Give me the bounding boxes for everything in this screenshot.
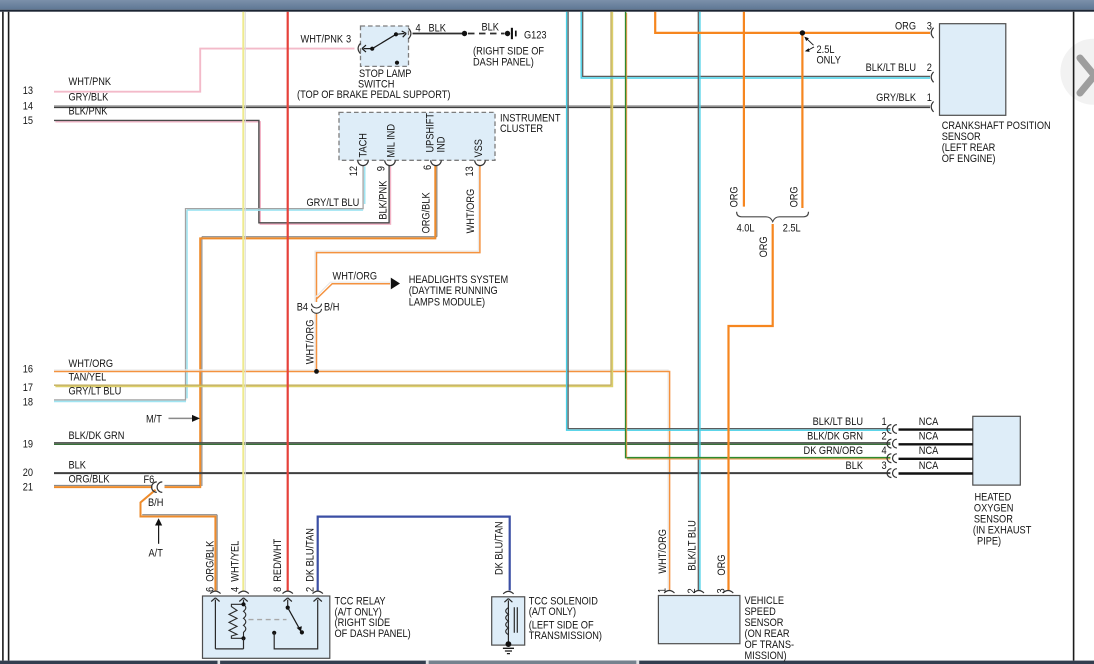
svg-text:BLK/PNK: BLK/PNK (69, 106, 108, 118)
vehicle speed sensor box (658, 596, 740, 644)
svg-text:WHT/ORG: WHT/ORG (658, 529, 670, 574)
svg-text:OF DASH PANEL): OF DASH PANEL) (335, 628, 411, 640)
switch S1 pin 3 entry arrow (362, 45, 372, 52)
svg-text:2: 2 (882, 431, 887, 443)
svg-text:13: 13 (464, 166, 476, 177)
wire BLK/LT BLU to vehicle speed sensor pin 2 (gray layer) (697, 12, 699, 591)
svg-text:1: 1 (927, 93, 932, 105)
svg-text:BLK/LT BLU: BLK/LT BLU (866, 62, 916, 74)
svg-text:BLK/LT BLU: BLK/LT BLU (813, 416, 863, 428)
wire TAN/YEL row17 rising at x611 (tan layer) (54, 12, 611, 386)
svg-text:DK BLU/TAN: DK BLU/TAN (494, 521, 506, 575)
svg-text:9: 9 (376, 166, 388, 171)
heated oxygen sensor box (973, 416, 1021, 485)
svg-text:4.0L: 4.0L (737, 223, 755, 235)
svg-text:2: 2 (927, 62, 932, 74)
wire WHT/ORG below B4 to row16 junction (white layer) (314, 313, 316, 370)
wire ORG/BLK cluster pin 6 to M/T branch down to row21 (orange layer) (200, 165, 435, 487)
cluster pin 6 arc (431, 160, 442, 165)
svg-text:PIPE): PIPE) (977, 536, 1001, 548)
top toolbar strip (0, 0, 1094, 10)
switch S1 stop lamp switch box (361, 26, 409, 66)
wire GRY/LT BLU (gray layer) (54, 165, 363, 400)
bottom scrollbar track (0, 661, 1094, 664)
wire ORG/BLK cluster pin 6 to M/T branch down to row21 (gray layer) (202, 165, 437, 486)
svg-text:ORG/BLK: ORG/BLK (69, 474, 110, 486)
svg-text:15: 15 (23, 115, 34, 127)
wire GRY/LT BLU cluster pin 12 to row18 (cyan layer) (54, 166, 365, 401)
wire BLK row20 to oxygen sensor pin 3 (54, 472, 890, 474)
switch S1 pin 3 connector arc (358, 43, 360, 53)
wire WHT/YEL vertical to TCC relay pin 4 (yellow layer) (242, 12, 244, 591)
svg-text:2: 2 (687, 588, 699, 593)
svg-text:BLK: BLK (846, 460, 864, 472)
wire WHT/YEL vertical (white layer) (244, 12, 246, 591)
connector F6 arcs (152, 482, 163, 492)
cluster pin 12 arc (358, 160, 369, 165)
solenoid coil bumps (506, 608, 509, 635)
relay bottom wire pin6 to coil (215, 648, 243, 650)
2.5L ONLY callout arrows (807, 39, 814, 50)
oxygen sensor pin 4 connector arcs (887, 454, 897, 463)
svg-text:NCA: NCA (919, 431, 939, 443)
wire BLK/LT BLU to vehicle speed sensor pin 2 (cyan layer) (699, 12, 701, 591)
wire TAN/YEL (yellow layer) (55, 12, 612, 387)
solenoid pin connector arc (503, 591, 513, 593)
wire BLK/DK GRN row19 to oxygen sensor pin 2 (black layer) (54, 442, 890, 444)
wire WHT/ORG cluster pin 13 to B4 connector (white layer) (315, 165, 478, 302)
ground G123 symbol (511, 28, 513, 39)
wire WHT/ORG cluster pin 13 to B4 connector (orange layer) (317, 165, 480, 302)
svg-text:LAMPS MODULE): LAMPS MODULE) (409, 297, 485, 309)
svg-text:ORG: ORG (758, 236, 770, 257)
wire ORG/BLK row21 right of F6 (gray layer) (165, 484, 201, 486)
svg-text:(TOP OF BRAKE PEDAL SUPPORT): (TOP OF BRAKE PEDAL SUPPORT) (297, 89, 450, 101)
junction dot at G123 (505, 31, 510, 36)
switch S1 pin 4 connector arc (409, 28, 411, 38)
ground symbol under solenoid (503, 648, 514, 653)
svg-text:ORG: ORG (729, 186, 741, 207)
wire BLK/DK GRN row19 (green layer) (54, 443, 890, 445)
svg-text:BLK: BLK (69, 460, 87, 472)
crankshaft sensor pin 2 arc (931, 72, 933, 82)
relay pin 2 arc (313, 591, 323, 593)
NCA wire pin3 (899, 472, 973, 474)
svg-text:17: 17 (23, 382, 34, 394)
wire WHT/ORG row16 to vehicle speed sensor pin 1 (orange layer) (54, 372, 670, 591)
svg-text:WHT/ORG: WHT/ORG (466, 189, 478, 234)
wire WHT/ORG headlights branch (white layer) (315, 282, 390, 297)
switch S1 lever and contacts (370, 31, 406, 65)
svg-text:NCA: NCA (919, 446, 939, 458)
TCC relay box K1 (203, 596, 330, 658)
WIRES_START (54, 12, 930, 591)
svg-text:3: 3 (716, 588, 728, 593)
svg-text:ORG: ORG (789, 186, 801, 207)
crankshaft sensor pin 1 arc (931, 102, 933, 112)
speed sensor pin 1 arc (664, 591, 674, 593)
svg-text:20: 20 (23, 467, 34, 479)
brace 4.0L/2.5L (737, 212, 809, 222)
svg-text:GRY/BLK: GRY/BLK (69, 92, 109, 104)
headlights system arrow (391, 278, 400, 290)
svg-text:DASH PANEL): DASH PANEL) (473, 57, 534, 69)
wire WHT/ORG headlights branch (orange layer) (317, 284, 390, 299)
wire GRY/BLK row14 (black layer) (54, 106, 930, 108)
relay pin 6 internal lead with arrow (211, 598, 219, 649)
svg-text:TACH: TACH (358, 133, 370, 157)
svg-text:HEADLIGHTS SYSTEM: HEADLIGHTS SYSTEM (409, 274, 508, 286)
wire ORG 2.5L drop from junction (801, 33, 803, 208)
svg-text:DK GRN/ORG: DK GRN/ORG (804, 446, 864, 458)
wire BLK/PNK row15 (black layer) (54, 120, 389, 222)
relay coil (zigzag) (229, 604, 244, 638)
svg-text:GRY/LT BLU: GRY/LT BLU (69, 386, 122, 398)
svg-text:1: 1 (882, 416, 887, 428)
svg-text:8 RED/WHT: 8 RED/WHT (272, 539, 284, 592)
svg-text:BLK: BLK (482, 22, 500, 34)
svg-text:WHT/PNK: WHT/PNK (69, 76, 112, 88)
svg-text:TRANSMISSION): TRANSMISSION) (529, 630, 602, 642)
svg-text:3: 3 (927, 21, 932, 33)
wire RED/WHT vertical to TCC relay pin 8 (287, 12, 289, 591)
svg-text:VSS: VSS (473, 139, 485, 158)
svg-text:BLK/PNK: BLK/PNK (378, 180, 390, 219)
svg-text:BLK/DK GRN: BLK/DK GRN (807, 431, 863, 443)
wire BLK/PNK row15 to instrument cluster pin 9 (pink layer) (55, 122, 390, 224)
cluster pin 13 arc (475, 160, 486, 165)
wire BLK/LT BLU to crankshaft sensor pin 2 (cyan layer) (581, 12, 930, 78)
oxygen sensor pin 3 connector arcs (887, 469, 897, 478)
svg-text:14: 14 (23, 101, 34, 113)
speed sensor pin 3 arc (723, 591, 733, 593)
relay pin 4 arc (238, 591, 248, 593)
wire BLK stop lamp switch pin 4 to junction (413, 33, 464, 35)
svg-text:OF ENGINE): OF ENGINE) (942, 153, 996, 165)
relay coil (wavy) (244, 604, 246, 638)
svg-text:6 ORG/BLK: 6 ORG/BLK (205, 541, 217, 592)
relay pin 6 arc (210, 591, 220, 593)
junction dot BLK (462, 31, 467, 36)
svg-text:B4: B4 (297, 302, 309, 314)
svg-text:1: 1 (657, 588, 669, 593)
relay pin 8 internal lead with arrow (284, 598, 292, 608)
svg-text:M/T: M/T (146, 414, 162, 426)
svg-text:WHT/PNK: WHT/PNK (301, 34, 344, 46)
svg-text:18: 18 (23, 397, 34, 409)
wire ORG/BLK row21 left of F6 (orange layer) (54, 486, 153, 488)
svg-text:BLK/LT BLU: BLK/LT BLU (687, 520, 699, 570)
wire BLK/LT BLU vertical to oxygen sensor pin 1 (gray layer) (568, 12, 890, 429)
svg-text:IND: IND (436, 137, 448, 153)
svg-text:ONLY: ONLY (817, 55, 842, 67)
wire ORG/BLK row21 right of F6 (orange layer) (165, 486, 202, 488)
svg-text:F6: F6 (144, 474, 155, 486)
junction dot ORG 2.5L (800, 30, 805, 35)
crankshaft position sensor box (940, 24, 1006, 116)
junction dot row16 (314, 369, 319, 374)
svg-text:G123: G123 (524, 30, 547, 42)
svg-text:NCA: NCA (919, 416, 939, 428)
svg-text:TAN/YEL: TAN/YEL (69, 372, 107, 384)
svg-text:4: 4 (416, 23, 421, 35)
svg-text:ORG: ORG (895, 21, 916, 33)
svg-text:6: 6 (422, 165, 434, 170)
svg-text:BLK: BLK (429, 23, 447, 35)
carousel next button (1060, 39, 1094, 105)
bottom scrollbar thumb (429, 661, 636, 664)
svg-text:WHT/ORG: WHT/ORG (305, 320, 317, 365)
svg-text:12: 12 (348, 166, 360, 177)
svg-text:4 WHT/YEL: 4 WHT/YEL (230, 540, 242, 592)
solenoid internal lead with arrow (504, 599, 512, 644)
NCA wire pin2 (899, 443, 973, 445)
NCA wire pin4 (899, 458, 973, 460)
svg-text:CLUSTER: CLUSTER (500, 123, 543, 135)
svg-text:3: 3 (882, 460, 887, 472)
wire GRY/BLK row14 to crankshaft sensor pin 1 (gray layer) (54, 105, 930, 107)
connector B4 arcs (312, 304, 322, 314)
svg-text:B/H: B/H (148, 497, 163, 509)
svg-text:13: 13 (23, 85, 34, 97)
speed sensor pin 2 arc (694, 591, 704, 593)
wire ORG below brace to vehicle speed sensor pin 3 (729, 224, 773, 591)
svg-text:GRY/LT BLU: GRY/LT BLU (307, 197, 360, 209)
NCA wire pin1 (899, 428, 973, 430)
svg-text:3: 3 (346, 34, 351, 46)
relay switch fixed contact to pin 2 (272, 631, 276, 635)
solenoid ground dot (506, 641, 512, 647)
relay pin 4 internal lead with arrow (239, 598, 247, 605)
wire ORG to crankshaft sensor pin 3 (655, 12, 930, 33)
svg-text:21: 21 (23, 482, 34, 494)
solenoid core bars (514, 607, 517, 633)
A/T arrow (158, 526, 160, 544)
svg-text:B/H: B/H (324, 302, 339, 314)
scrollbar separators (218, 661, 221, 664)
svg-text:WHT/ORG: WHT/ORG (333, 271, 378, 283)
svg-text:BLK/DK GRN: BLK/DK GRN (69, 430, 125, 442)
svg-text:ORG: ORG (717, 554, 729, 575)
page left border double line (3, 12, 9, 661)
wire DK BLU/TAN TCC relay pin 2 to TCC solenoid (318, 517, 510, 591)
svg-text:2.5L: 2.5L (783, 223, 801, 235)
svg-text:(DAYTIME RUNNING: (DAYTIME RUNNING (409, 285, 498, 297)
svg-text:NCA: NCA (919, 460, 939, 472)
svg-text:4: 4 (882, 446, 887, 458)
svg-text:MISSION): MISSION) (745, 650, 787, 662)
svg-text:GRY/BLK: GRY/BLK (876, 93, 916, 105)
M/T arrow (169, 417, 193, 419)
svg-text:19: 19 (23, 439, 34, 451)
svg-text:(A/T ONLY): (A/T ONLY) (529, 606, 576, 618)
wire BLK dashed to G123 (468, 33, 505, 35)
wire WHT/PNK row13 to stop lamp switch pin 3 (54, 49, 355, 92)
svg-text:16: 16 (23, 364, 34, 376)
wire DK GRN/ORG vertical to oxygen sensor pin 4 (green layer) (626, 12, 891, 458)
wire WHT/ORG row16 to vehicle speed sensor pin 1 (white layer) (54, 370, 668, 591)
wire ORG/BLK row21 left of F6 (gray layer) (54, 484, 153, 486)
relay switch armature (286, 606, 290, 610)
wire ORG 4.0L vertical (743, 12, 745, 207)
wire ORG/BLK B/H drop to TCC relay pin 6 (orange layer) (141, 490, 216, 591)
oxygen sensor pin 1 connector arcs (887, 425, 897, 434)
page right border line (1073, 12, 1075, 661)
wire BLK/LT BLU to crankshaft sensor pin 2 (gray layer) (583, 12, 930, 77)
svg-text:ORG/BLK: ORG/BLK (421, 192, 433, 233)
wire WHT/ORG below B4 to row16 junction (orange layer) (316, 313, 318, 371)
oxygen sensor pin 2 connector arcs (887, 439, 897, 448)
TCC solenoid box L1 (492, 597, 525, 645)
svg-text:A/T: A/T (149, 548, 163, 560)
cluster pin 9 arc (385, 160, 396, 165)
wire DK GRN/ORG (orange layer) (627, 13, 891, 459)
instrument cluster box U2 (339, 112, 495, 160)
svg-text:MIL IND: MIL IND (386, 124, 398, 157)
relay coil-switch dashed link (249, 619, 287, 621)
wire ORG/BLK B/H drop to TCC relay pin 6 (gray layer) (142, 515, 217, 591)
svg-text:2 DK BLU/TAN: 2 DK BLU/TAN (305, 528, 317, 592)
crankshaft sensor pin 3 arc (931, 28, 933, 38)
relay pin 8 arc (283, 591, 293, 593)
svg-text:WHT/ORG: WHT/ORG (69, 358, 114, 370)
wire BLK/LT BLU vertical to oxygen sensor pin 1 (cyan layer) (567, 12, 891, 431)
